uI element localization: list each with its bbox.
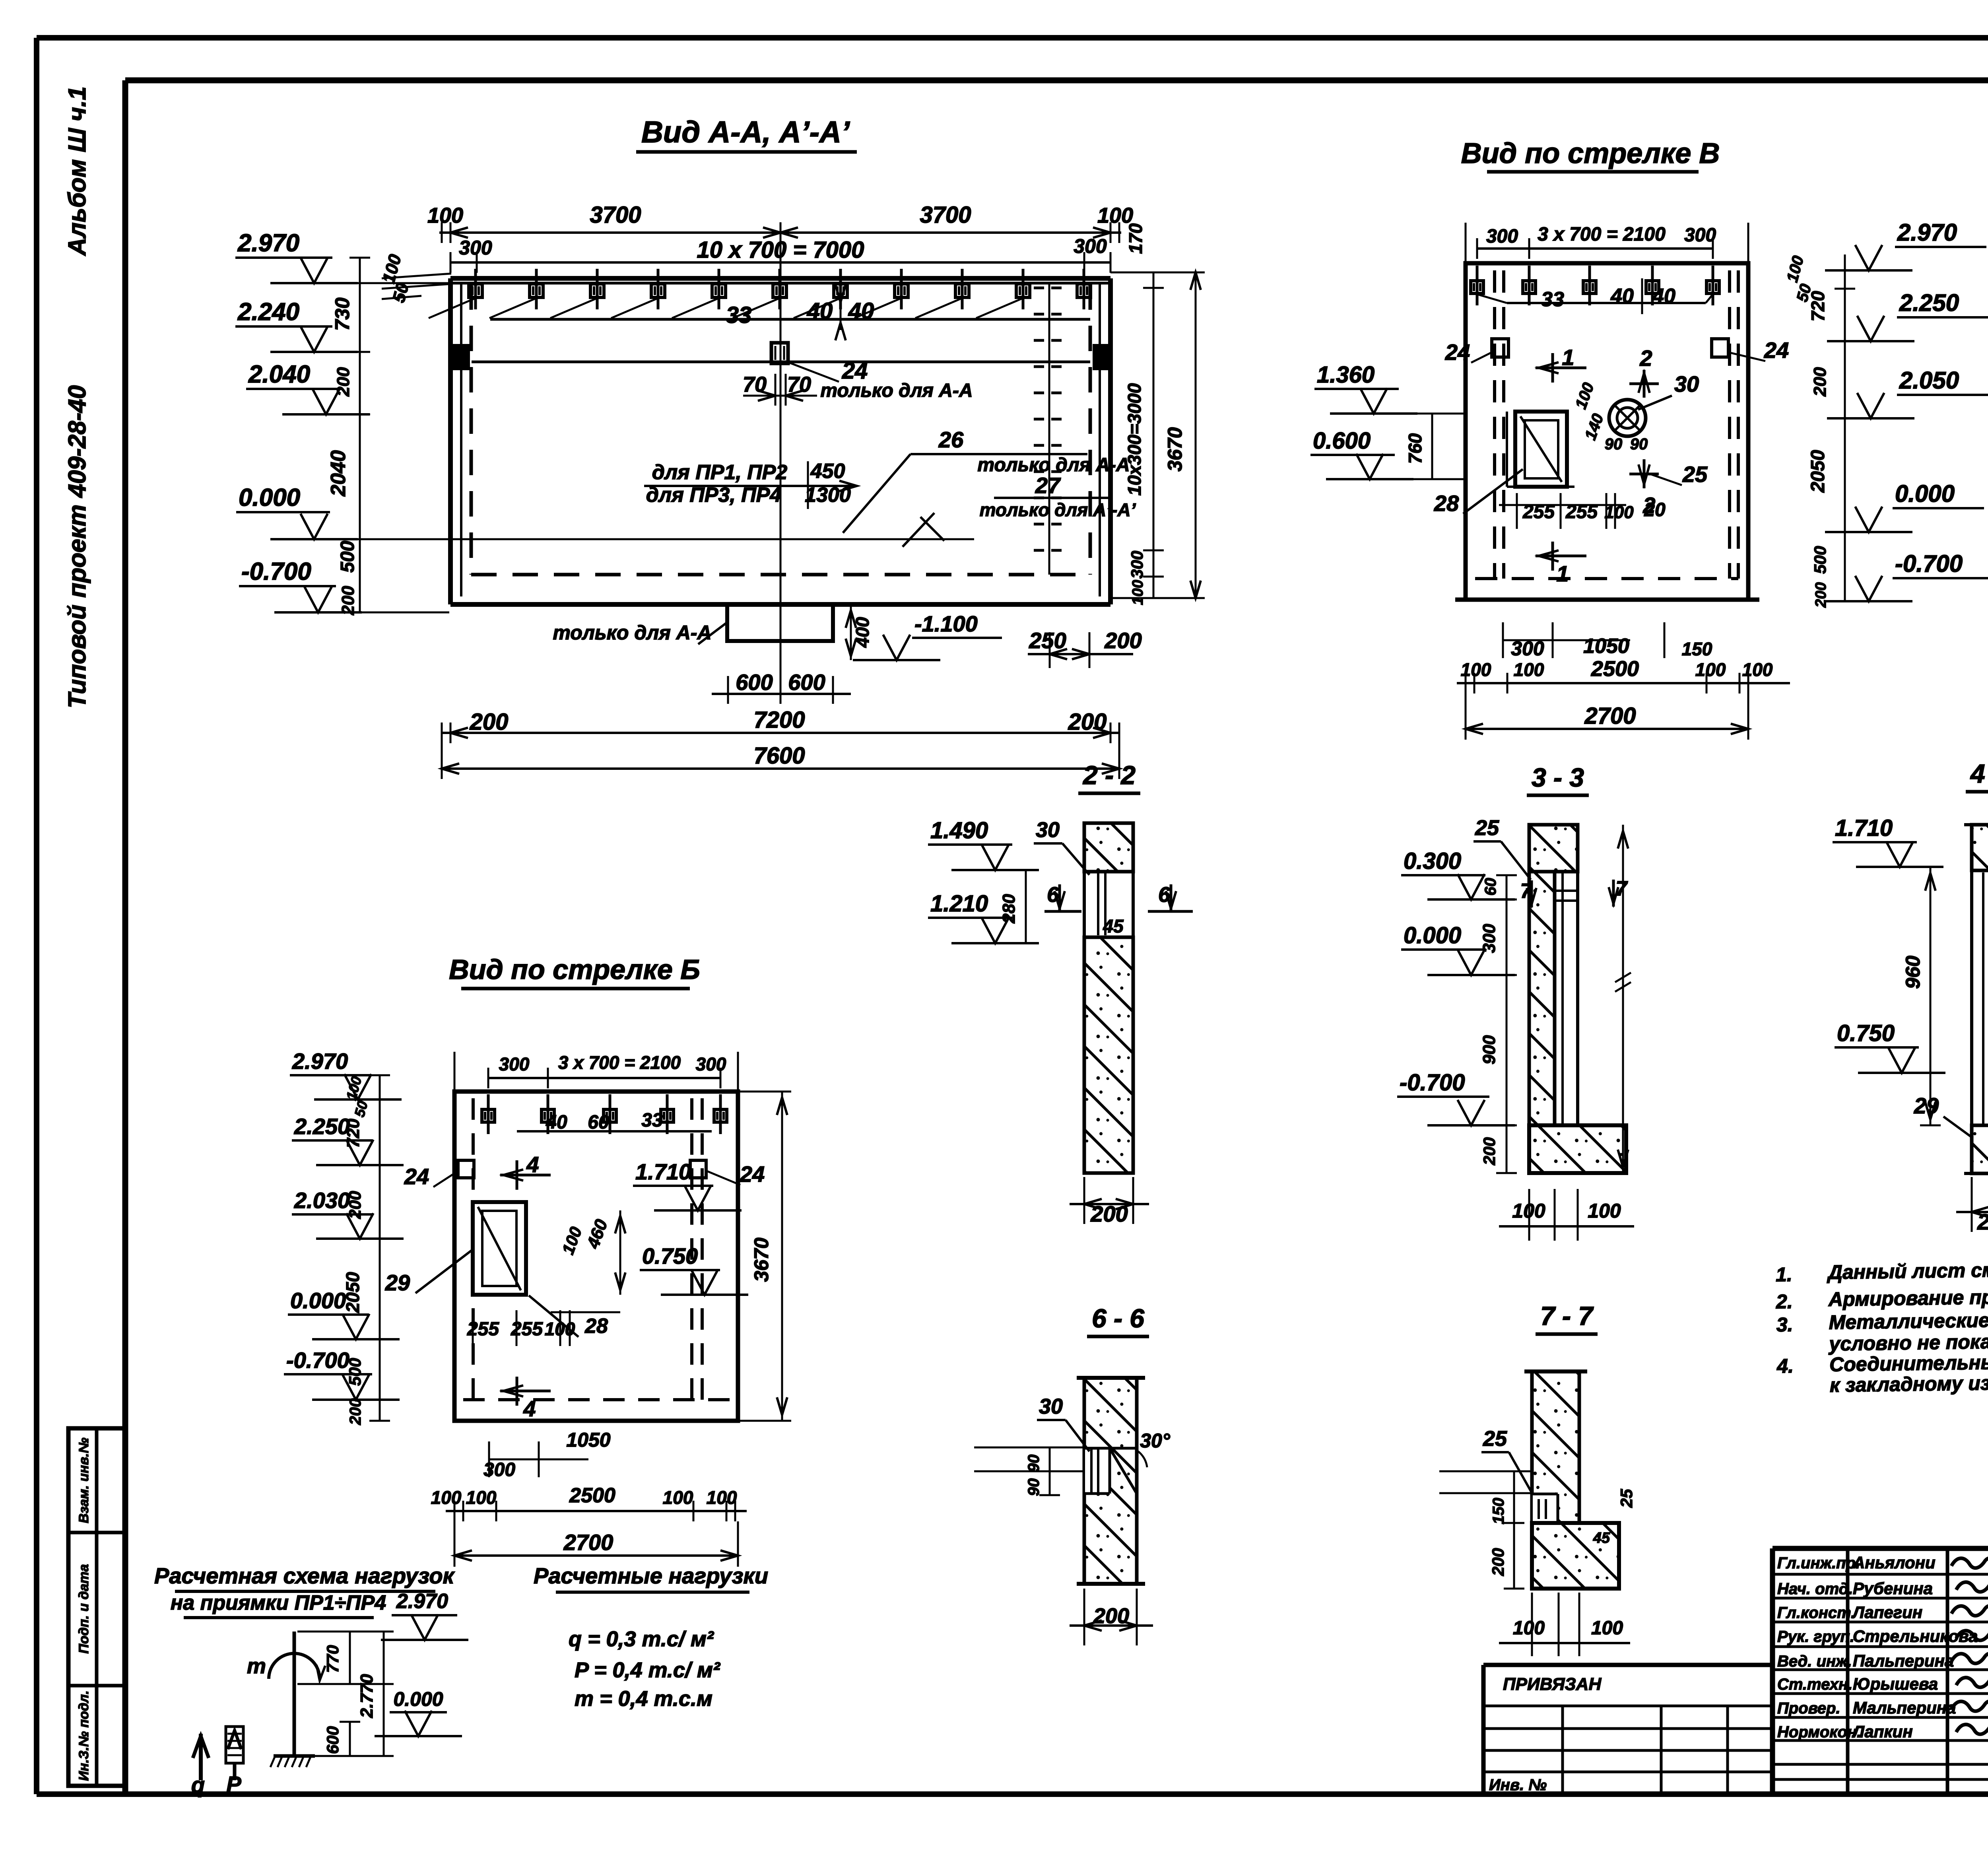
margin text Album III ch.1 [64,86,91,256]
svg-text:60: 60 [1482,878,1499,896]
svg-text:100: 100 [707,1487,737,1508]
svg-text:m: m [247,1654,266,1678]
svg-text:2.770: 2.770 [357,1674,377,1718]
svg-text:25: 25 [1475,816,1499,840]
svg-text:200: 200 [470,709,509,735]
svg-text:2.: 2. [1776,1290,1793,1313]
label 25 strelka V [1650,462,1708,487]
svg-text:40: 40 [1652,285,1675,308]
svg-text:600: 600 [736,670,773,695]
section mark 1 top [1536,345,1586,383]
svg-text:2700: 2700 [563,1530,613,1555]
svg-text:100: 100 [663,1487,693,1508]
svg-text:100: 100 [1513,1618,1545,1639]
svg-text:2050: 2050 [342,1272,363,1313]
svg-text:33: 33 [726,302,752,328]
svg-text:Пальперина: Пальперина [1853,1651,1954,1670]
svg-text:300: 300 [499,1054,530,1074]
label 24 with leader [789,358,868,384]
svg-text:100: 100 [427,204,463,227]
labels section 2-2 [928,818,1193,943]
labels section 3-3 [1397,816,1631,1173]
svg-text:Расчетные нагрузки: Расчетные нагрузки [534,1563,768,1588]
bottom dim 200 section 6-6 [1070,1589,1153,1645]
svg-text:25: 25 [1682,462,1708,487]
section 4-4 wall [1964,825,1988,1173]
left stamp table [68,1428,125,1786]
label 70 70 dim [743,373,817,406]
labels 24 strelka B [404,1160,765,1189]
svg-text:730: 730 [331,297,353,331]
svg-text:2.970: 2.970 [396,1590,448,1613]
svg-text:2.250: 2.250 [294,1114,350,1139]
svg-text:3700: 3700 [590,202,641,228]
svg-text:600: 600 [323,1726,342,1754]
svg-text:90: 90 [1025,1478,1043,1496]
dims 255 255 100 20 strelka V [1499,493,1666,529]
svg-text:2700: 2700 [1584,703,1636,729]
svg-text:255: 255 [467,1319,499,1340]
right dim chain 10x300 view A-A [1124,223,1164,605]
svg-text:100: 100 [1514,659,1544,680]
svg-text:Ст.техн.: Ст.техн. [1777,1676,1852,1693]
svg-text:60: 60 [588,1112,609,1133]
load scheme title [154,1563,468,1640]
svg-text:Гл.конст.: Гл.конст. [1777,1604,1855,1622]
labels 24 strelka V [1445,338,1789,365]
dims 255 255 100 28 strelka B [467,1296,608,1346]
svg-text:для ПР1, ПР2: для ПР1, ПР2 [652,461,788,484]
svg-text:45: 45 [1103,916,1124,936]
load q arrow [191,1734,209,1797]
section 4-4 title [1966,759,1988,792]
svg-text:90: 90 [1630,435,1648,453]
svg-text:Рубенина: Рубенина [1853,1579,1933,1598]
view strelka V top dim 300 3x700 300 [1466,223,1748,278]
view strelka V title [1461,138,1720,172]
title block main outline [1773,1548,1988,1794]
svg-text:Провер.: Провер. [1777,1700,1840,1717]
view strelka V dashed lines [1475,270,1738,579]
svg-text:170: 170 [1125,223,1146,254]
svg-text:500: 500 [1811,546,1829,574]
view A-A centre axis [780,229,782,700]
svg-text:-0.700: -0.700 [1400,1070,1465,1096]
svg-text:3.: 3. [1776,1313,1793,1336]
svg-text:Типовой проект 409-28-40: Типовой проект 409-28-40 [64,385,91,709]
svg-text:300: 300 [1128,551,1146,579]
svg-text:1: 1 [1556,561,1569,586]
section 2-2 title [1078,760,1140,793]
svg-text:4 - 4: 4 - 4 [1970,759,1988,788]
section 6-6 title [1087,1303,1149,1336]
svg-text:3670: 3670 [750,1237,773,1282]
svg-text:30°: 30° [1140,1430,1171,1452]
svg-text:Инв. №: Инв. № [1489,1776,1547,1794]
svg-text:300: 300 [1684,225,1716,246]
view A-A title [636,115,857,152]
svg-text:100: 100 [1130,580,1146,605]
svg-text:2500: 2500 [1591,657,1639,681]
section 3-3 title [1527,763,1589,795]
svg-text:3 - 3: 3 - 3 [1532,763,1584,792]
svg-text:7200: 7200 [753,707,805,733]
svg-text:720: 720 [1807,291,1828,321]
svg-text:3700: 3700 [920,202,971,228]
svg-text:760: 760 [1405,433,1425,464]
svg-text:100: 100 [1695,659,1726,680]
label tolko dlya A-A (upper) [820,380,973,401]
svg-text:770: 770 [323,1645,342,1673]
svg-text:0.000: 0.000 [1895,480,1955,507]
svg-text:Подп. и дата: Подп. и дата [76,1564,91,1653]
design loads title [534,1563,768,1592]
svg-text:29: 29 [1914,1093,1939,1118]
levels right of strelka V [1825,219,1988,601]
svg-text:960: 960 [1902,956,1924,989]
level 2.240 view A-A [235,298,360,352]
level line 0.000 view A-A [236,484,974,539]
svg-text:25: 25 [1617,1489,1636,1508]
label 33 with leaders [726,302,752,328]
svg-text:30: 30 [1674,371,1699,396]
left levels strelka B [284,1049,404,1400]
right dim chain strelka V [1784,254,1855,608]
svg-text:-0.700: -0.700 [1895,550,1963,577]
dim 600 600 under pit [712,670,851,704]
svg-text:30: 30 [1039,1395,1063,1418]
svg-text:24: 24 [1764,338,1789,363]
leader 27 tolko dlya A'-A' [980,473,1136,520]
load scheme dims [297,1632,462,1756]
svg-text:200: 200 [1977,1209,1988,1234]
svg-text:280: 280 [999,894,1019,924]
bottom dims section 3-3 [1499,1189,1634,1241]
svg-text:200: 200 [1104,628,1142,653]
signatures [1951,1558,1988,1734]
pit below view A-A [553,604,833,644]
svg-text:Лапкин: Лапкин [1852,1722,1913,1741]
svg-text:200: 200 [338,586,358,616]
view A-A ledge line with embed 24 [472,343,1090,363]
table dlya PR1 PR2 450 1300 [644,460,857,509]
label 0.750 strelka B [640,1243,748,1295]
svg-text:7 - 7: 7 - 7 [1540,1301,1594,1331]
embed on right wall [1093,344,1110,370]
svg-text:1300: 1300 [805,484,851,507]
svg-text:0.000: 0.000 [239,484,300,511]
svg-text:Взам. инв.№: Взам. инв.№ [76,1437,91,1523]
svg-text:к закладному изделию поз: к закладному изделию поз 31. [1829,1370,1988,1396]
svg-text:40: 40 [848,298,874,324]
svg-text:6 - 6: 6 - 6 [1092,1303,1145,1333]
levels left of strelka V [1310,362,1466,479]
svg-text:1.710: 1.710 [1835,815,1893,841]
svg-text:2.970: 2.970 [292,1049,348,1074]
svg-text:300: 300 [1486,226,1518,247]
label 33 40 40 strelka V [1541,278,1675,314]
svg-text:26: 26 [938,427,964,452]
pit depth 400 [846,604,873,660]
svg-text:200: 200 [1480,1137,1499,1165]
labels section 7-7 [1439,1427,1636,1589]
svg-text:4.: 4. [1776,1355,1794,1377]
view strelka V outline [1455,263,1759,600]
svg-text:1.490: 1.490 [930,818,988,843]
level 2.040 view A-A [246,361,370,414]
label 40 40 [807,285,874,340]
svg-text:m = 0,4 т.с.м: m = 0,4 т.с.м [575,1687,712,1711]
level -1.100 at pit [853,611,1002,660]
svg-text:1050: 1050 [566,1429,610,1451]
svg-text:250: 250 [1029,628,1066,653]
svg-text:3 х 700 = 2100: 3 х 700 = 2100 [558,1052,681,1073]
level line -0.700 view A-A [239,558,449,612]
section 7-7 wall [1524,1371,1619,1589]
svg-text:2040: 2040 [327,450,350,497]
notes list [1775,1253,1988,1397]
svg-text:0.750: 0.750 [1837,1020,1895,1046]
svg-text:40: 40 [807,298,833,324]
svg-text:200: 200 [1068,709,1107,735]
svg-text:Вид по стрелке В: Вид по стрелке В [1461,138,1720,169]
svg-text:P = 0,4 т.с/ м²: P = 0,4 т.с/ м² [575,1658,721,1682]
left vertical dim chain view A-A [327,252,451,616]
embed window 28 strelka V [1434,412,1574,516]
bottom dims strelka B [431,1429,747,1567]
svg-text:300: 300 [1074,235,1107,257]
bottom dims strelka V [1457,622,1790,740]
svg-text:Вид по стрелке Б: Вид по стрелке Б [449,954,700,985]
bottom dims section 7-7 [1499,1593,1630,1656]
svg-text:100: 100 [1742,659,1773,680]
view A-A outline [450,278,1110,604]
bottom dim 200 section 4-4 [1956,1177,1988,1234]
svg-text:2: 2 [1639,346,1652,371]
svg-text:27: 27 [1035,473,1061,498]
svg-text:только для А-А: только для А-А [820,380,973,401]
svg-text:100: 100 [1591,1618,1623,1639]
section 2-2 top hatched cap [1084,823,1133,872]
svg-text:300: 300 [696,1054,726,1074]
svg-text:Альбом Ш ч.1: Альбом Ш ч.1 [64,86,91,256]
right ticks ladder inside view A-A [1034,283,1066,575]
svg-text:Нормокон.: Нормокон. [1777,1723,1861,1741]
design loads values [569,1627,721,1711]
svg-text:3 х 700 = 2100: 3 х 700 = 2100 [1538,224,1666,245]
view strelka B outline [454,1092,738,1421]
svg-text:150: 150 [1490,1498,1507,1525]
svg-text:500: 500 [346,1358,364,1386]
view strelka B top dims [454,1052,738,1105]
labels section 6-6 [974,1395,1171,1496]
svg-text:P: P [226,1771,241,1797]
load scheme column [247,1632,325,1767]
section 7-7 title [1536,1301,1598,1334]
svg-text:2 - 2: 2 - 2 [1082,760,1136,790]
rotated dims near pipe [1572,381,1648,453]
svg-text:2.970: 2.970 [237,229,299,257]
right dim 3670 view A-A [1110,272,1205,598]
section 2-2 lower hatched wall [1084,937,1133,1173]
svg-text:0.000: 0.000 [1404,923,1461,948]
svg-text:2.970: 2.970 [1897,219,1957,246]
embed on left wall [452,344,470,370]
svg-text:-0.700: -0.700 [286,1348,349,1373]
view strelka B title [449,954,700,989]
svg-text:1: 1 [1562,345,1574,370]
section mark 2 bottom [1629,459,1659,518]
dim 200 7200 200 view A-A [442,707,1119,743]
view strelka B dashed [463,1098,732,1400]
svg-text:500: 500 [337,541,358,573]
bottom dim 200 section 2-2 [1070,1177,1149,1226]
svg-text:только для А-А: только для А-А [553,622,711,644]
rotated dims 100 460 strelka B [551,1210,625,1312]
svg-text:4: 4 [523,1396,536,1421]
pipe sleeve 30 strelka V [1609,371,1699,436]
svg-text:900: 900 [1479,1035,1499,1064]
svg-text:1.210: 1.210 [930,891,988,917]
left dim chain strelka B [342,1074,390,1425]
svg-text:Вид А-А, Аʼ-Аʼ: Вид А-А, Аʼ-Аʼ [641,115,850,149]
label 1.710 strelka B [633,1159,742,1210]
view A-A top anchors row [429,269,1091,319]
svg-text:24: 24 [740,1162,765,1187]
svg-text:300: 300 [459,237,492,259]
section mark 1 bottom [1536,542,1586,586]
svg-text:для ПР3, ПР4: для ПР3, ПР4 [646,484,782,507]
view A-A inner dashed contour [471,284,1090,575]
svg-text:255: 255 [511,1319,543,1340]
svg-text:0.750: 0.750 [642,1243,698,1268]
svg-text:Аньялони: Аньялони [1852,1553,1936,1572]
svg-text:20: 20 [1644,499,1666,521]
svg-text:200: 200 [1489,1548,1507,1576]
svg-text:Лапегин: Лапегин [1852,1603,1922,1622]
svg-text:0.000: 0.000 [290,1288,346,1313]
svg-text:Гл.инж.пр.: Гл.инж.пр. [1777,1554,1860,1572]
names table [1773,1548,1988,1794]
svg-text:1.: 1. [1776,1263,1792,1286]
margin text Tipovoy proekt 409-28-40 [64,385,91,709]
svg-text:Рук. груп.: Рук. груп. [1777,1628,1854,1645]
svg-text:Юрышева: Юрышева [1853,1674,1938,1693]
svg-text:100: 100 [466,1487,497,1508]
svg-text:3670: 3670 [1164,427,1186,471]
dim row 3700 3700 view A-A [427,202,1133,243]
svg-text:40: 40 [1610,285,1634,308]
svg-text:200: 200 [1090,1201,1128,1226]
svg-text:33: 33 [641,1110,663,1131]
view strelka B anchors [482,1094,727,1134]
svg-text:450: 450 [810,460,845,483]
load P arrow [226,1727,243,1797]
embed window 29 strelka B [385,1202,526,1295]
svg-text:q = 0,3 т.с/ м²: q = 0,3 т.с/ м² [569,1627,714,1651]
svg-text:25: 25 [1483,1427,1507,1451]
svg-text:2050: 2050 [1807,450,1829,493]
svg-text:28: 28 [1434,491,1459,516]
section mark 4 bottom [500,1377,551,1421]
svg-text:q: q [191,1772,205,1797]
svg-text:2.050: 2.050 [1899,367,1959,394]
svg-text:150: 150 [1682,639,1712,659]
svg-text:300: 300 [1511,637,1544,660]
labels 40 60 33 strelka B [546,1110,663,1133]
svg-text:1050: 1050 [1583,635,1629,658]
svg-text:200: 200 [347,1399,364,1426]
svg-text:200: 200 [346,1191,364,1219]
svg-text:10х300=3000: 10х300=3000 [1124,383,1145,495]
svg-text:2.040: 2.040 [248,361,310,388]
svg-text:600: 600 [788,670,825,695]
dim 7600 view A-A [442,743,1119,779]
svg-text:90: 90 [1605,435,1623,453]
section 3-3 hatched wall [1529,825,1626,1173]
svg-text:200: 200 [334,367,353,397]
labels section 4-4 [1833,815,1973,1138]
svg-text:200: 200 [1813,582,1829,608]
left attachment table [1483,1665,1773,1794]
svg-text:4: 4 [526,1152,539,1177]
svg-text:10 х 700 = 7000: 10 х 700 = 7000 [697,237,864,263]
svg-text:1.710: 1.710 [635,1159,691,1184]
svg-text:Ин.З.№ подл.: Ин.З.№ подл. [76,1690,91,1781]
svg-text:1.360: 1.360 [1317,362,1375,388]
svg-text:100: 100 [1461,659,1491,680]
dim 250 200 right of pit [1028,628,1142,668]
svg-text:100: 100 [1512,1200,1545,1222]
svg-text:2.250: 2.250 [1899,289,1959,316]
svg-text:только для Аʼ-Аʼ: только для Аʼ-Аʼ [980,499,1136,520]
svg-text:ПРИВЯЗАН: ПРИВЯЗАН [1503,1674,1602,1694]
svg-text:29: 29 [385,1270,410,1295]
level 2.970 view A-A [235,229,449,283]
svg-text:Мальперина: Мальперина [1853,1698,1956,1717]
svg-text:Вед. инж.: Вед. инж. [1777,1653,1852,1670]
svg-text:Нач. отд.: Нач. отд. [1777,1580,1853,1598]
svg-text:0.300: 0.300 [1404,848,1461,874]
svg-text:720: 720 [344,1119,363,1148]
svg-text:на приямки ПР1÷ПР4: на приямки ПР1÷ПР4 [171,1591,386,1614]
svg-text:-1.100: -1.100 [914,611,978,636]
svg-text:100: 100 [1588,1200,1621,1222]
svg-text:24: 24 [1445,340,1470,365]
svg-text:40: 40 [546,1112,567,1133]
section mark 4 top [500,1152,551,1190]
svg-text:28: 28 [584,1315,608,1338]
view strelka V top anchors [1471,266,1719,305]
svg-text:200: 200 [1093,1604,1129,1628]
svg-text:90: 90 [1025,1455,1043,1472]
svg-text:200: 200 [1810,367,1830,397]
leader 26 tolko dlya A-A [843,427,1130,547]
svg-text:-0.700: -0.700 [241,558,311,585]
svg-text:100: 100 [431,1487,462,1508]
svg-text:30: 30 [1036,818,1060,842]
svg-text:45: 45 [1593,1530,1610,1546]
svg-text:2.030: 2.030 [294,1188,350,1213]
svg-text:Расчетная схема нагрузок: Расчетная схема нагрузок [154,1563,455,1588]
svg-text:24: 24 [404,1164,429,1189]
svg-text:33: 33 [1541,288,1564,311]
section mark 2 top [1629,346,1659,398]
svg-text:0.600: 0.600 [1313,428,1371,454]
svg-text:7600: 7600 [753,743,805,769]
svg-text:2500: 2500 [569,1484,615,1507]
tall dim 3670 strelka B [738,1092,791,1421]
